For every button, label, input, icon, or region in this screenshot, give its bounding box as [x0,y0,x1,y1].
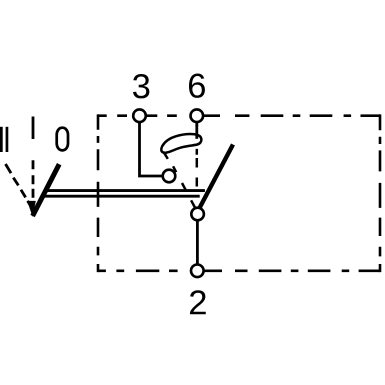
enclosure border right edge (dash-dot) [379,114,382,272]
wire from terminal 3 down then right to fixed contact [140,120,163,176]
terminal 2 circle [191,265,204,278]
label 6 [189,74,205,98]
cam tail tick [164,153,168,159]
wire pivot to terminal 2 [196,220,199,265]
moving contact lever [200,145,234,209]
label 3 [133,74,149,98]
dashed position line toward II [6,164,31,205]
position label 0 [57,128,68,151]
position label II bar 1 [0,127,3,152]
pivot contact circle [191,208,204,221]
wire stub from terminal 6 down (drawn over cam) [195,120,198,126]
mechanical linkage double line lower [42,195,200,198]
label 2 [190,290,206,314]
dashed position line middle [32,160,35,198]
dashed guide line vertical (terminal 6 to pivot) [196,149,199,187]
dashed guide line diagonal (cam tail to pivot) [173,166,195,207]
actuating lever (position 0) [33,164,60,216]
cam / momentary-action band [161,134,201,153]
fixed contact circle (from terminal 3) [163,170,176,183]
terminal 3 circle [133,109,146,122]
enclosure border bottom edge (dash-dot) [98,269,380,272]
enclosure border left edge (dash-dot) [97,114,100,272]
mechanical linkage double line upper [44,189,205,192]
enclosure border top edge (dash-dot) [98,114,380,117]
position label II bar 2 [6,127,9,152]
position mark I [32,117,35,140]
arrowhead at lever vertex [27,201,36,217]
wire stub from terminal 6 into cam curl [195,125,198,139]
terminal 6 circle [191,109,204,122]
